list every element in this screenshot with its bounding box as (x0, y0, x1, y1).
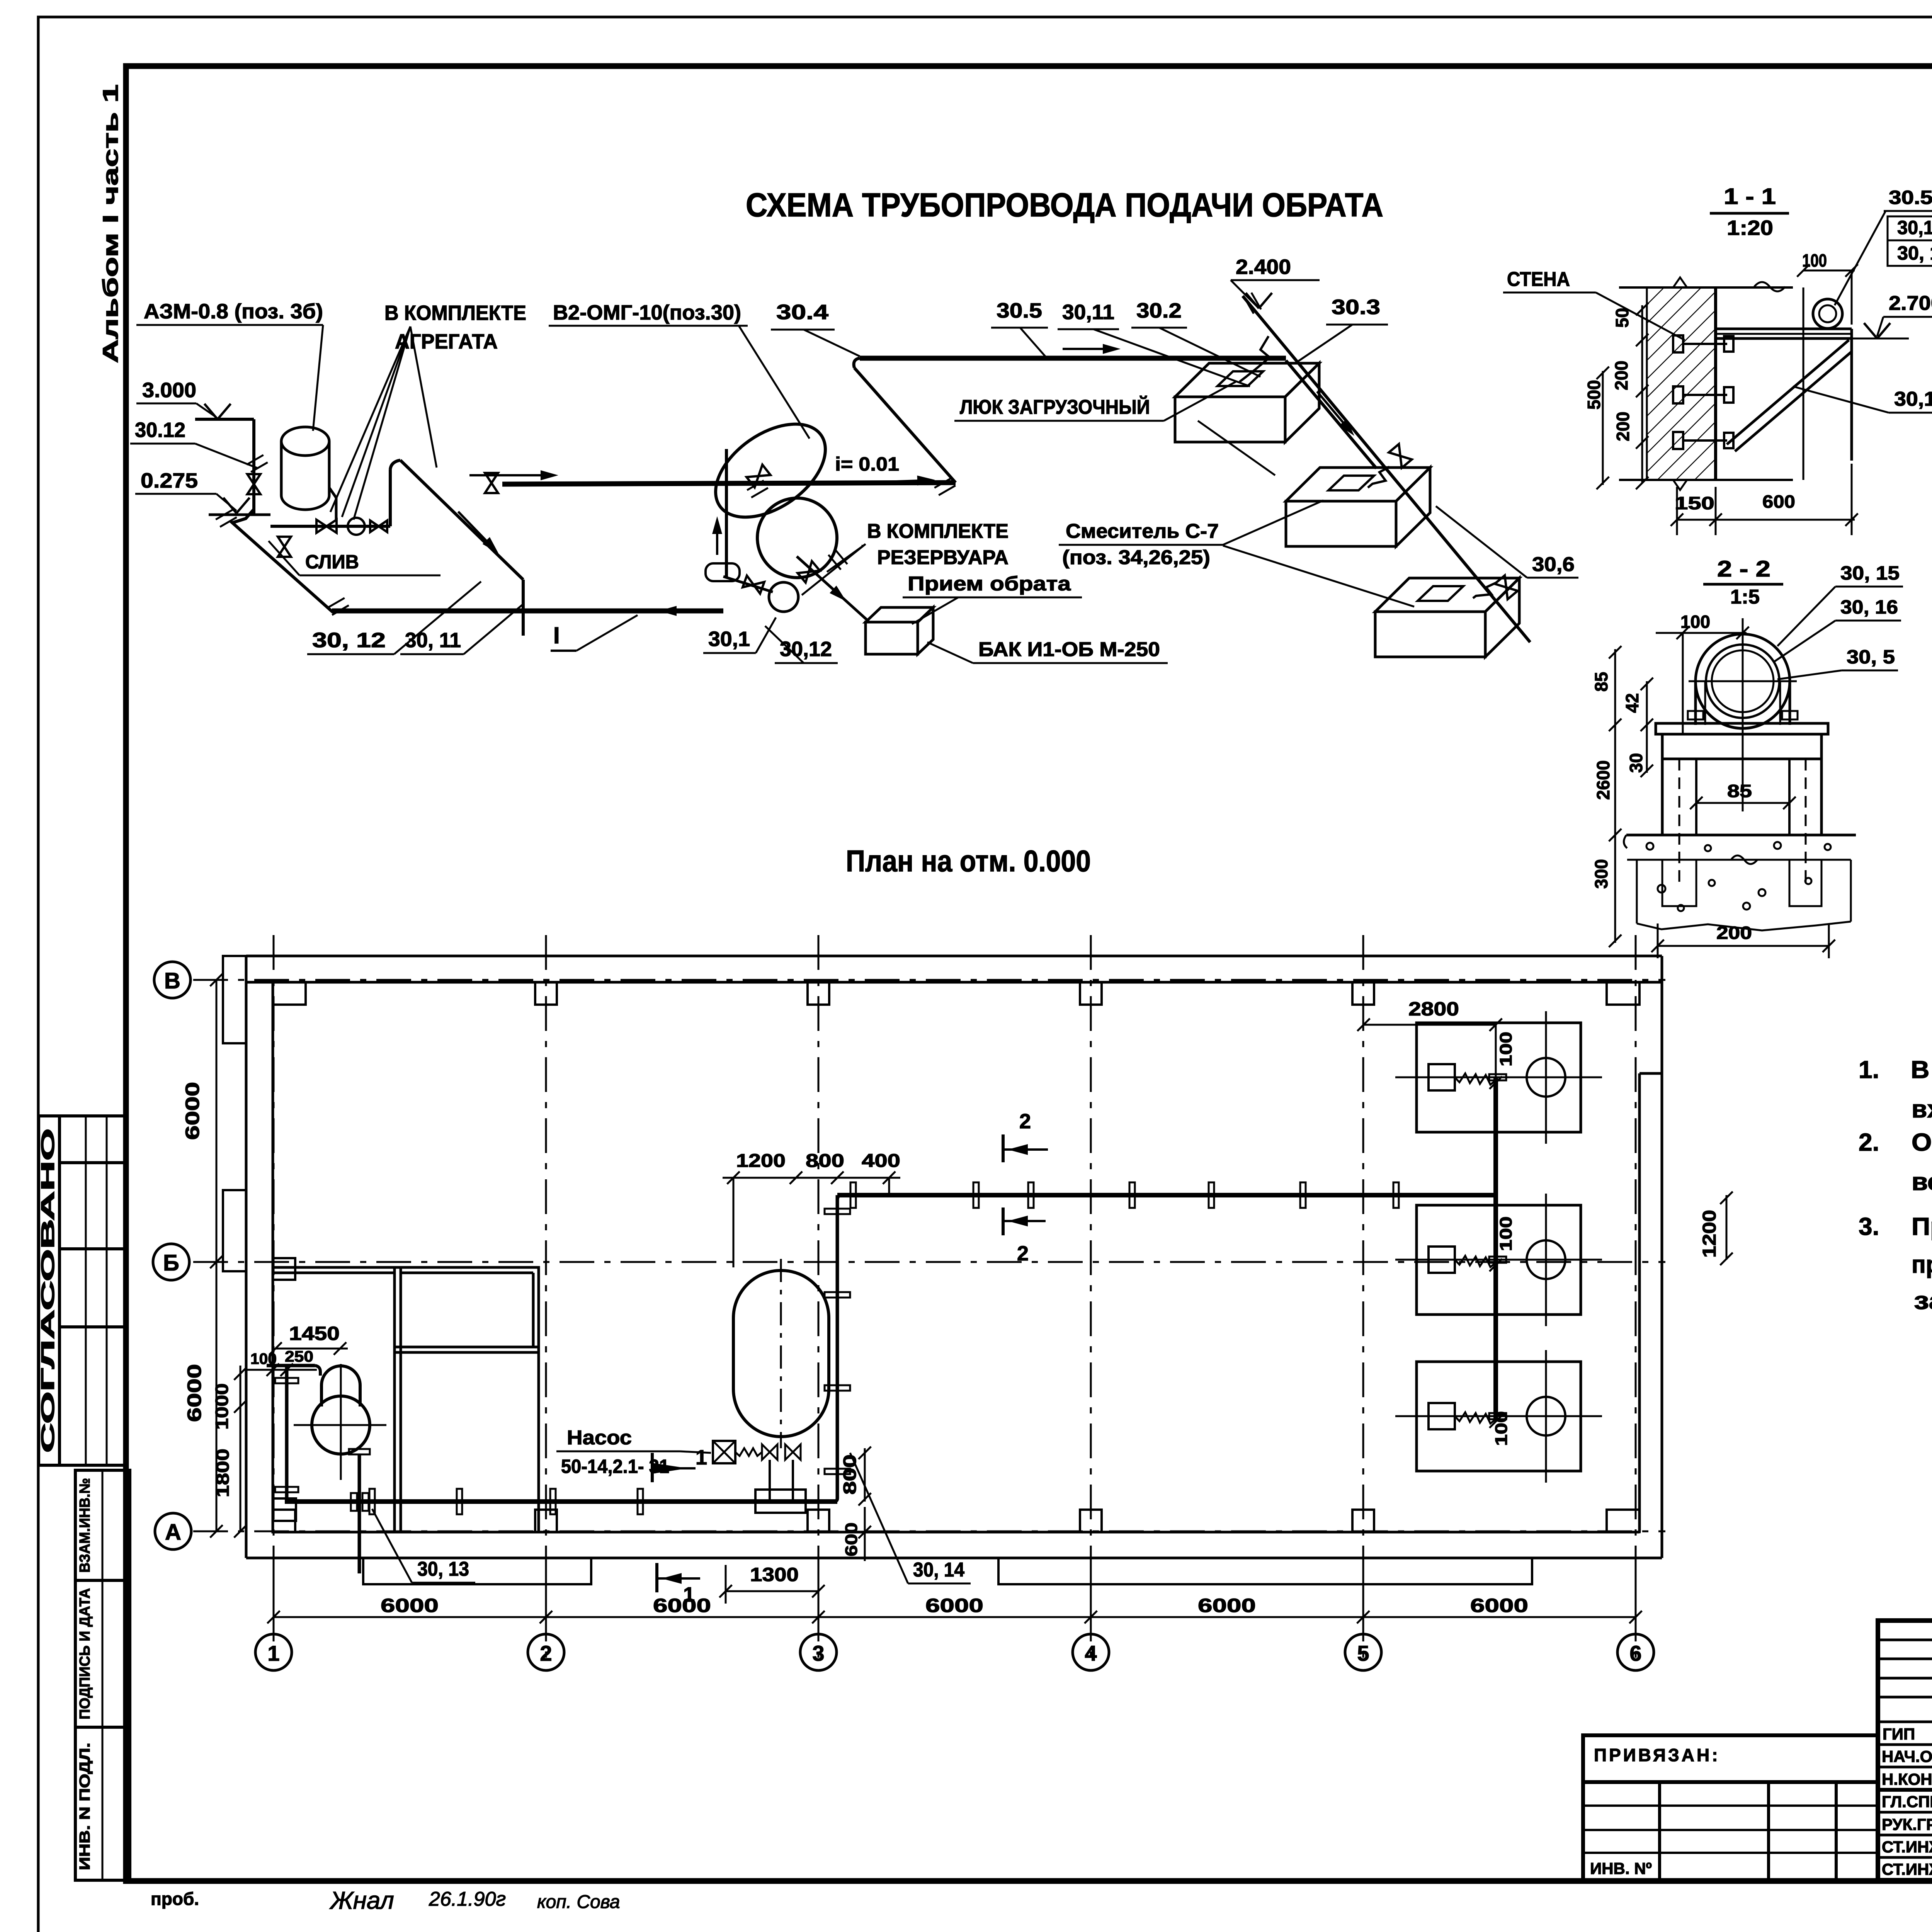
svg-text:Жнал: Жнал (329, 1886, 394, 1914)
svg-text:3.: 3. (1859, 1213, 1879, 1240)
svg-text:30.12: 30.12 (135, 418, 185, 442)
svg-text:5: 5 (1357, 1641, 1369, 1665)
svg-text:30.5: 30.5 (1889, 187, 1932, 208)
svg-text:закрепить на сварке.: закрепить на сварке. (1914, 1287, 1932, 1315)
svg-text:ИНВ. N ПОДЛ.: ИНВ. N ПОДЛ. (77, 1743, 93, 1870)
svg-text:проходов. Опоры, расположенные: проходов. Опоры, расположенные на смесит… (1912, 1250, 1932, 1278)
svg-text:1: 1 (696, 1446, 707, 1469)
svg-text:100: 100 (1680, 612, 1710, 632)
svg-text:400: 400 (862, 1151, 900, 1171)
svg-text:В: В (164, 968, 180, 993)
svg-text:СХЕМА ТРУБОПРОВОДА ПОДАЧИ О: СХЕМА ТРУБОПРОВОДА ПОДАЧИ ОБРАТА (746, 187, 1383, 224)
svg-text:30.5: 30.5 (997, 299, 1042, 322)
svg-text:30, 16: 30, 16 (1840, 596, 1898, 618)
svg-text:А: А (165, 1520, 181, 1545)
svg-text:Опоры и кронштейны располагат: Опоры и кронштейны располагать через два… (1912, 1128, 1932, 1156)
svg-text:Б: Б (163, 1250, 179, 1276)
svg-text:30,6: 30,6 (1532, 553, 1575, 576)
svg-text:В КОМПЛЕКТЕ: В КОМПЛЕКТЕ (867, 520, 1009, 543)
svg-text:ПРИВЯЗАН:: ПРИВЯЗАН: (1594, 1745, 1720, 1765)
svg-text:30, 12: 30, 12 (312, 629, 386, 652)
svg-text:800: 800 (806, 1151, 844, 1171)
svg-text:30, 14: 30, 14 (913, 1559, 964, 1581)
svg-text:СЛИВ: СЛИВ (305, 551, 359, 573)
svg-text:30, 13: 30, 13 (417, 1558, 469, 1580)
svg-text:1800: 1800 (213, 1449, 233, 1497)
svg-text:всей длине трубопроводов.: всей длине трубопроводов. (1912, 1168, 1932, 1196)
svg-text:200: 200 (1716, 923, 1752, 943)
svg-text:100: 100 (1492, 1411, 1511, 1446)
svg-text:6000: 6000 (1198, 1595, 1256, 1616)
svg-text:1:20: 1:20 (1727, 216, 1773, 240)
svg-text:(поз. 34,26,25): (поз. 34,26,25) (1062, 546, 1210, 569)
svg-text:800: 800 (840, 1454, 860, 1495)
svg-text:30,11: 30,11 (1062, 301, 1114, 324)
svg-text:РУК.ГР.: РУК.ГР. (1882, 1815, 1932, 1833)
svg-text:30, 15: 30, 15 (1840, 562, 1900, 584)
svg-text:ЛЮК ЗАГРУЗОЧНЫЙ: ЛЮК ЗАГРУЗОЧНЫЙ (960, 396, 1150, 418)
svg-text:30.2: 30.2 (1136, 299, 1182, 322)
svg-text:проб.: проб. (151, 1889, 199, 1909)
svg-text:2: 2 (1017, 1242, 1029, 1265)
svg-text:1000: 1000 (212, 1383, 232, 1430)
svg-text:600: 600 (1762, 492, 1795, 512)
svg-text:3.000: 3.000 (142, 379, 196, 402)
svg-text:РЕЗЕРВУАРА: РЕЗЕРВУАРА (877, 546, 1009, 569)
svg-text:2.: 2. (1859, 1128, 1879, 1156)
svg-text:6: 6 (1629, 1641, 1641, 1665)
svg-text:1:5: 1:5 (1730, 586, 1760, 608)
svg-text:30.4: 30.4 (776, 301, 828, 324)
svg-text:1: 1 (683, 1583, 695, 1606)
svg-text:30,16: 30,16 (1897, 217, 1932, 238)
svg-text:30,1: 30,1 (708, 628, 750, 651)
svg-text:ВЗАМ.ИНВ.№: ВЗАМ.ИНВ.№ (77, 1478, 93, 1573)
svg-text:4: 4 (1085, 1641, 1097, 1665)
svg-text:26.1.90г: 26.1.90г (429, 1888, 506, 1910)
svg-text:План на отм. 0.000: План на отм. 0.000 (846, 844, 1091, 878)
svg-text:30,12: 30,12 (780, 638, 832, 661)
svg-text:150: 150 (1675, 493, 1714, 513)
svg-text:Насос: Насос (567, 1427, 632, 1449)
svg-text:1 - 1: 1 - 1 (1724, 184, 1776, 209)
svg-text:6000: 6000 (925, 1595, 983, 1616)
svg-text:2 - 2: 2 - 2 (1717, 556, 1770, 582)
svg-text:250: 250 (285, 1348, 313, 1365)
svg-text:42: 42 (1622, 693, 1642, 713)
svg-text:30, 15: 30, 15 (1897, 242, 1932, 264)
svg-text:входящие в комплект АЗМ-08 (п: входящие в комплект АЗМ-08 (поз.3б) и В2… (1912, 1095, 1932, 1123)
svg-text:2: 2 (540, 1641, 552, 1665)
svg-text:30: 30 (1626, 753, 1646, 773)
svg-text:Смеситель С-7: Смеситель С-7 (1066, 520, 1219, 543)
svg-text:ГИП: ГИП (1883, 1725, 1915, 1743)
svg-text:50: 50 (1612, 308, 1632, 328)
svg-text:2.700: 2.700 (1889, 292, 1932, 315)
svg-text:АГРЕГАТА: АГРЕГАТА (395, 330, 498, 353)
svg-text:В КОМПЛЕКТЕ: В КОМПЛЕКТЕ (384, 301, 526, 325)
svg-text:6000: 6000 (381, 1595, 439, 1616)
svg-text:АЗМ-0.8 (поз. 3б): АЗМ-0.8 (поз. 3б) (144, 300, 323, 323)
svg-text:85: 85 (1591, 672, 1611, 692)
svg-text:100: 100 (1497, 1032, 1515, 1066)
svg-text:0.275: 0.275 (141, 469, 198, 492)
svg-text:2800: 2800 (1408, 998, 1459, 1020)
svg-text:i= 0.01: i= 0.01 (835, 453, 899, 475)
svg-text:В спецификации указано оборуд: В спецификации указано оборудование и ма… (1911, 1056, 1932, 1083)
svg-text:В2-ОМГ-10(поз.30): В2-ОМГ-10(поз.30) (553, 301, 741, 324)
svg-text:85: 85 (1727, 781, 1752, 801)
svg-text:1: 1 (267, 1641, 279, 1665)
svg-text:Н.КОНТР.: Н.КОНТР. (1882, 1770, 1932, 1788)
svg-text:2: 2 (1019, 1110, 1031, 1133)
svg-text:300: 300 (1591, 859, 1611, 889)
svg-text:6000: 6000 (182, 1082, 203, 1140)
svg-text:30, 5: 30, 5 (1847, 646, 1895, 668)
svg-text:БАК И1-ОБ М-250: БАК И1-ОБ М-250 (978, 638, 1160, 661)
svg-text:I: I (553, 622, 560, 648)
svg-text:30,13: 30,13 (1894, 388, 1932, 410)
svg-text:НАЧ.ОТД.: НАЧ.ОТД. (1882, 1747, 1932, 1765)
svg-text:1200: 1200 (736, 1151, 786, 1171)
svg-text:СТ.ИНЖ.: СТ.ИНЖ. (1882, 1860, 1932, 1878)
svg-text:Альбом I часть 1: Альбом I часть 1 (98, 84, 122, 363)
svg-text:100: 100 (1497, 1216, 1515, 1251)
svg-text:При монтаже установку опор уто: При монтаже установку опор уточнить по м… (1912, 1213, 1932, 1240)
svg-text:30.3: 30.3 (1332, 296, 1380, 319)
svg-text:ИНВ. Nº: ИНВ. Nº (1590, 1859, 1652, 1878)
svg-text:Прием обрата: Прием обрата (908, 573, 1071, 595)
svg-text:коп. Сова: коп. Сова (537, 1892, 620, 1912)
svg-text:600: 600 (842, 1522, 861, 1556)
svg-text:1.: 1. (1859, 1056, 1879, 1083)
svg-text:СОГЛАСОВАНО: СОГЛАСОВАНО (38, 1128, 58, 1453)
svg-text:200: 200 (1611, 361, 1631, 390)
svg-text:ГЛ.СПЕЦ.: ГЛ.СПЕЦ. (1882, 1793, 1932, 1811)
svg-text:6000: 6000 (1470, 1595, 1528, 1616)
svg-text:6000: 6000 (653, 1595, 711, 1616)
svg-text:3: 3 (812, 1641, 824, 1665)
svg-text:2.400: 2.400 (1236, 255, 1291, 279)
svg-text:500: 500 (1584, 380, 1604, 410)
svg-text:1200: 1200 (1699, 1210, 1720, 1258)
svg-text:6000: 6000 (184, 1364, 205, 1422)
svg-text:30, 11: 30, 11 (405, 629, 461, 652)
svg-text:200: 200 (1613, 412, 1633, 441)
svg-text:1300: 1300 (750, 1564, 799, 1585)
svg-text:ПОДПИСЬ И ДАТА: ПОДПИСЬ И ДАТА (77, 1588, 93, 1719)
svg-text:СТ.ИНЖ.: СТ.ИНЖ. (1882, 1838, 1932, 1856)
svg-text:2600: 2600 (1593, 760, 1613, 800)
svg-text:СТЕНА: СТЕНА (1507, 268, 1570, 291)
svg-text:1450: 1450 (289, 1323, 340, 1344)
